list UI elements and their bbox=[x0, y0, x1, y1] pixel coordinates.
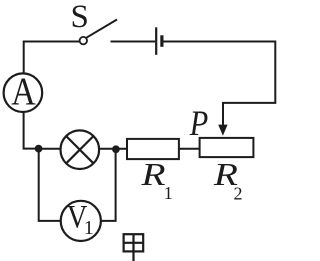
svg-text:A: A bbox=[11, 70, 36, 113]
svg-text:S: S bbox=[71, 0, 89, 35]
svg-text:1: 1 bbox=[164, 183, 173, 203]
svg-text:P: P bbox=[189, 103, 208, 143]
svg-text:2: 2 bbox=[234, 183, 243, 203]
svg-text:R: R bbox=[140, 156, 166, 192]
svg-text:1: 1 bbox=[84, 217, 94, 239]
